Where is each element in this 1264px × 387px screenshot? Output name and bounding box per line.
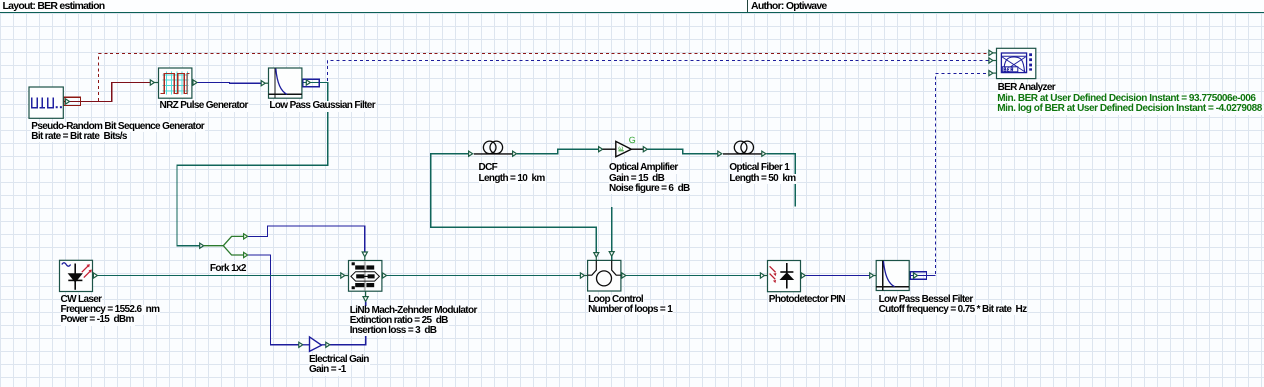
NRZ input port arrow [150,80,154,85]
BER side squares [1029,53,1032,56]
MZM input port arrow [341,273,345,278]
MZM corner squares [352,262,355,265]
OA triangle [616,141,632,156]
monitor rect at LPGF output (navy) [303,79,319,87]
NRZ output port arrow [192,82,193,84]
PD input port arrow [760,273,764,278]
label Optical Fiber 1 [729,163,790,173]
wire Fork out1 to MZM top port (navy) [248,226,365,252]
BER input port 2 arrow [989,58,993,63]
component BER Analyzer box [989,48,1036,78]
LPGF icon axes [274,68,276,98]
NRZ icon cyan graph [163,72,189,95]
PD output port arrow [800,275,803,277]
LPGF icon curve [276,69,287,95]
header divider [747,0,748,12]
wire Photodetector to Bessel filter (navy) [805,275,869,277]
wire LPGF output down to Fork (teal) [177,83,328,246]
header bar [0,0,1264,13]
MZM top port arrow (down) [362,252,367,257]
wire NRZ to LPGF (navy) [197,82,261,85]
Bessel input port arrow [870,273,874,278]
Bessel icon axes [882,261,884,291]
DCF input port arrow [469,151,473,156]
component DCF fiber coil [469,141,517,156]
DCF coil circles [483,141,496,154]
component Low Pass Bessel Filter box [870,261,918,291]
CW icon sine squiggle [62,263,71,267]
wire Fork out2 down to Electrical Gain (navy) [248,255,299,345]
MZM gray electrode line [364,262,366,291]
component NRZ Pulse Generator box [150,68,197,98]
wire MZM to Loop Control (teal) [386,275,580,277]
Loop input port arrow [580,273,584,278]
component Optical Amplifier [599,135,648,157]
label MZM [350,306,478,316]
component Optical Fiber 1 coil [718,141,766,156]
label BER Analyzer [998,83,1056,93]
MZM output port arrow [381,275,384,277]
label Optical Amplifier [609,163,679,173]
wire Loop Control up-loop to DCF (teal) [431,154,597,254]
DCF output port arrow [513,151,517,156]
PRBS output port arrow [66,99,70,104]
wire DCF to Optical Amplifier (teal) [517,149,599,154]
wire Optical Amplifier to Optical Fiber 1 (teal) [647,149,717,154]
BER input port 1 arrow [989,50,993,55]
label Fork [210,264,247,274]
label Loop Control [588,295,644,305]
component Electrical Gain [299,337,330,352]
label DCF [479,163,499,173]
fork input port arrow [200,243,204,248]
PD icon diode [786,263,788,289]
DCF icon line [474,153,513,155]
OA input port arrow [599,147,603,152]
Loop icon lines [588,260,597,275]
BER screen rect [1001,53,1026,73]
Loop top port 1 arrow (down) [594,253,599,258]
wire Loop Control to Photodetector (teal) [626,275,761,277]
label LPGF [269,101,376,111]
LPGF output port arrow [306,80,310,85]
wire CW Laser to MZM (teal) [98,275,341,277]
PRBS icon U1U.. [32,98,53,108]
BER input port 3 arrow [989,71,993,76]
Loop icon circle [597,271,612,286]
label NRZ [160,101,249,111]
dashed wire Bessel to BER Analyzer port 3 (navy) [936,74,989,275]
MZM bottom port arrow (down) [365,291,367,296]
MZM electrode bars [355,265,364,269]
OF1 icon line [723,153,762,155]
PD icon red arrows [770,266,776,279]
OF1 input port arrow [718,151,722,156]
fork Y glyph [204,236,244,245]
label Bessel [879,295,974,305]
component LiNb Mach-Zehnder Modulator box [341,252,387,301]
monitor rect at PRBS output [64,97,81,105]
MZM hexagon waveguide [351,272,380,281]
Loop top port 2 arrow (down) [609,252,614,257]
wire Bessel output stub (navy) [909,275,935,277]
Loop output port arrow [620,275,623,277]
BER label box [1002,67,1018,72]
label Photodetector [769,295,846,305]
Bessel icon curve [884,261,895,287]
wire Optical Fiber 1 dangling end (teal) [766,154,795,207]
wire PRBS to NRZ (maroon) [64,83,151,102]
dashed wire LPGF to BER Analyzer port 2 (navy) [328,61,989,82]
OF1 output port arrow [762,151,766,156]
OF1 coil circles [734,141,747,154]
EG input port arrow [299,342,303,347]
wire vertical into Loop Control port 2 (teal) [611,207,613,260]
monitor rect at Bessel output (navy) [910,272,926,280]
LPGF input port arrow [261,81,265,86]
fork output port arrows [244,234,248,239]
component PRBS box [29,87,70,118]
component CW Laser box [60,260,98,291]
Bessel output port arrow [914,273,918,278]
BER eye diagram [1002,57,1025,72]
component Fork 1x2 [200,234,248,258]
label PRBS [31,122,205,132]
CW icon diode [74,264,76,290]
CW icon red arrows [82,265,91,277]
EG triangle [310,337,322,352]
component Low Pass Gaussian Filter box [261,68,310,98]
component Photodetector PIN box [760,261,805,292]
component Loop Control box [580,252,625,291]
OA output port arrow [643,147,647,152]
EG output port arrow [326,342,330,347]
wire Electrical Gain up to MZM bottom port (navy) [330,302,366,345]
svg-text:G: G [629,135,636,145]
label Electrical Gain [309,355,370,365]
NRZ icon red waveform [161,74,190,94]
label CW Laser [61,295,103,305]
dashed wire PRBS to BER Analyzer port 1 (dark red) [99,54,989,101]
CW output port arrow [93,273,97,278]
